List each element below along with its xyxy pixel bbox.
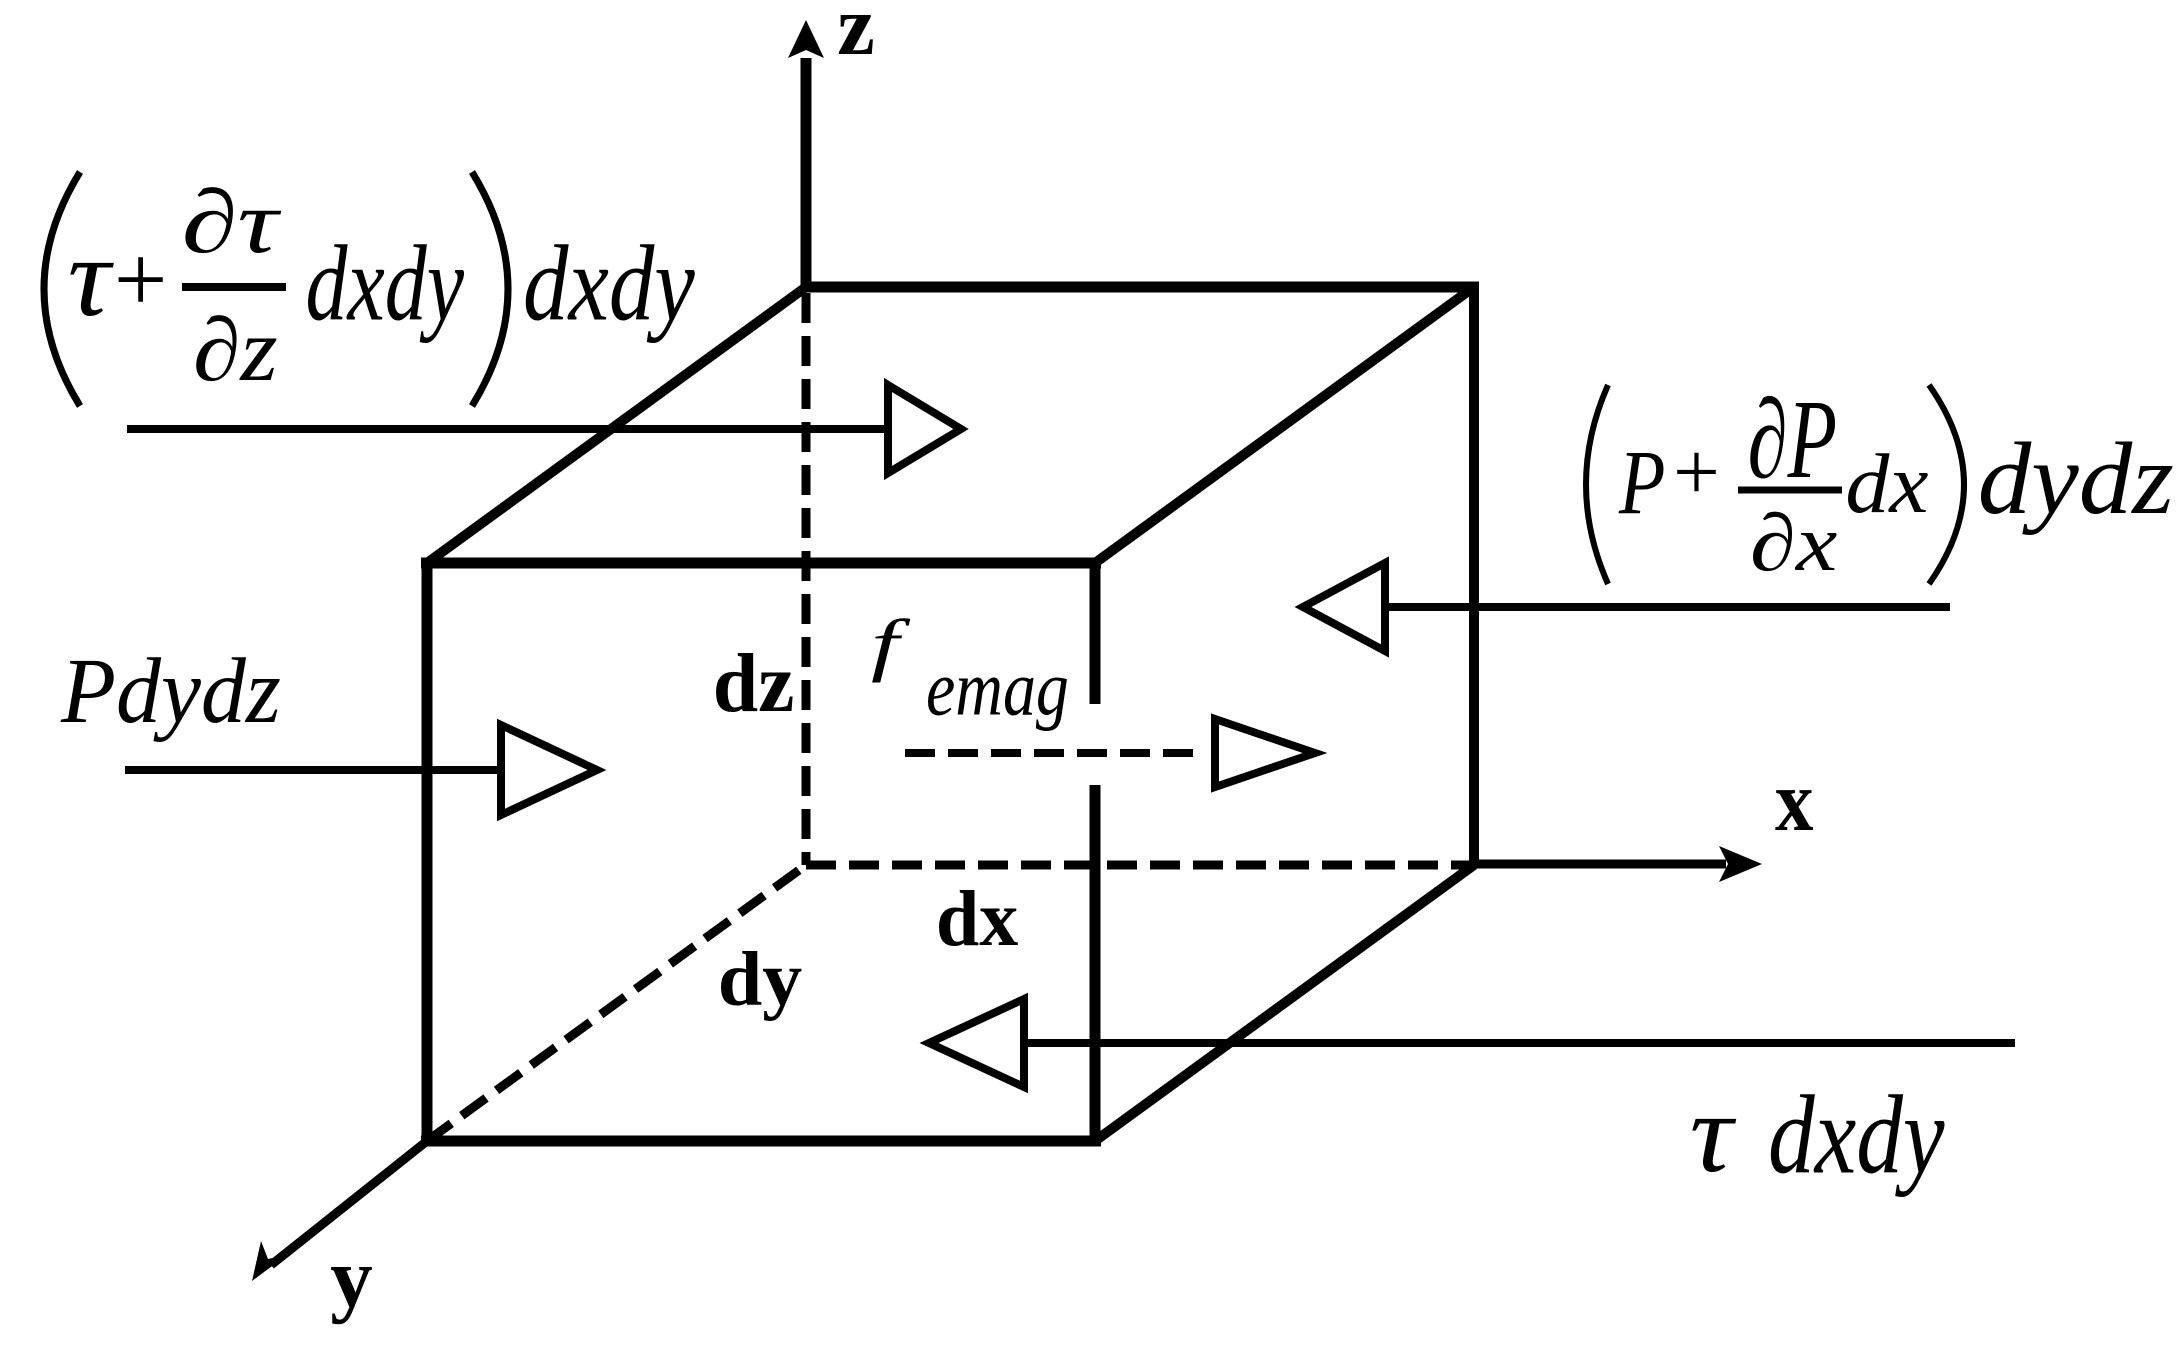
- svg-text:Pdydz: Pdydz: [60, 639, 281, 743]
- force arrow for (tau + dtau/dz dxdy)dxdy on top face: [127, 385, 961, 473]
- svg-text:+: +: [108, 226, 172, 332]
- left parenthesis: [44, 172, 80, 406]
- svg-text:emag: emag: [926, 646, 1069, 732]
- svg-text:τ: τ: [1690, 1071, 1737, 1196]
- svg-text:dx: dx: [936, 875, 1018, 963]
- cube back top edge: [806, 282, 1479, 293]
- fraction bar: [182, 283, 286, 291]
- cube top-right diagonal edge: [1095, 287, 1474, 563]
- y-axis: [252, 1141, 427, 1281]
- svg-text:dxdy: dxdy: [1768, 1074, 1945, 1198]
- right parenthesis: [1929, 385, 1964, 584]
- left parenthesis: [1586, 385, 1608, 584]
- formula (P + dP/dx dx)dydz: [1586, 378, 2174, 587]
- cube front face left edge: [422, 558, 433, 1146]
- svg-text:P: P: [1618, 432, 1665, 533]
- svg-text:dydz: dydz: [1978, 421, 2174, 536]
- cube hidden bottom-left diagonal edge (dashed): [427, 865, 806, 1141]
- svg-text:∂x: ∂x: [1750, 498, 1838, 588]
- svg-text:∂τ: ∂τ: [182, 173, 282, 273]
- svg-text:dy: dy: [718, 937, 802, 1023]
- svg-text:∂z: ∂z: [193, 300, 278, 400]
- dashed body-force arrow f_emag: [905, 719, 1315, 787]
- x-axis: [1474, 846, 1762, 882]
- svg-text:dxdy: dxdy: [523, 223, 695, 343]
- cube hidden back-bottom edge (dashed): [806, 861, 1474, 870]
- force arrow for tau dxdy on bottom face: [929, 999, 2015, 1087]
- z-axis: [788, 20, 824, 291]
- formula (tau + dtau/dz dxdy)dxdy: [44, 172, 695, 406]
- svg-text:z: z: [837, 0, 875, 73]
- right parenthesis: [472, 172, 508, 406]
- cube front face bottom edge: [421, 1136, 1101, 1147]
- force arrow for (P + dP/dx dx)dydz on right face: [1303, 563, 1950, 651]
- cube front face right edge upper segment: [1090, 558, 1101, 704]
- cube front face top edge: [421, 558, 1101, 569]
- cube bottom-right diagonal edge: [1095, 865, 1474, 1141]
- force arrow for P dydz on left face: [125, 725, 597, 815]
- svg-text:dx: dx: [1845, 436, 1928, 530]
- svg-text:y: y: [330, 1231, 373, 1325]
- svg-text:x: x: [1775, 753, 1814, 849]
- cube hidden back-left vertical edge (dashed): [802, 293, 811, 865]
- svg-text:dxdy: dxdy: [306, 223, 465, 342]
- fraction bar: [1738, 487, 1842, 494]
- cube back right edge: [1469, 282, 1479, 865]
- cube top-left diagonal edge: [427, 287, 806, 563]
- svg-text:∂P: ∂P: [1748, 378, 1838, 502]
- cube front face right edge lower segment: [1090, 785, 1101, 1146]
- svg-text:+: +: [1668, 426, 1724, 518]
- svg-text:dz: dz: [713, 636, 795, 729]
